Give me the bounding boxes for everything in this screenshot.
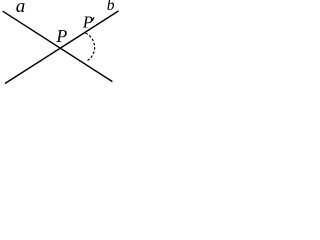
line a (top-left to bottom-right)	[3, 11, 113, 81]
geometry diagram: lines a and b crossing at P, point P' on b, dashed arc	[0, 0, 120, 89]
dashed arc near P'	[86, 33, 95, 60]
svg-text:P: P	[82, 13, 93, 32]
svg-text:P: P	[55, 26, 67, 46]
svg-text:b: b	[107, 0, 115, 14]
svg-text:a: a	[16, 0, 25, 17]
prime mark of P'	[92, 18, 93, 21]
background	[0, 0, 120, 89]
line b (bottom-left to top-right)	[5, 11, 119, 84]
